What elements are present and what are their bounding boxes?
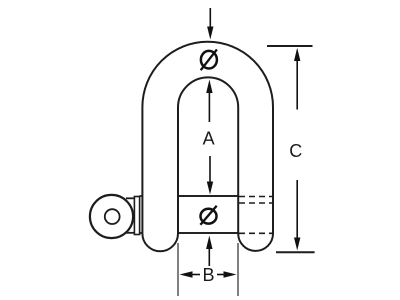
- svg-text:C: C: [289, 141, 302, 161]
- svg-text:A: A: [203, 129, 215, 149]
- svg-text:B: B: [202, 265, 214, 285]
